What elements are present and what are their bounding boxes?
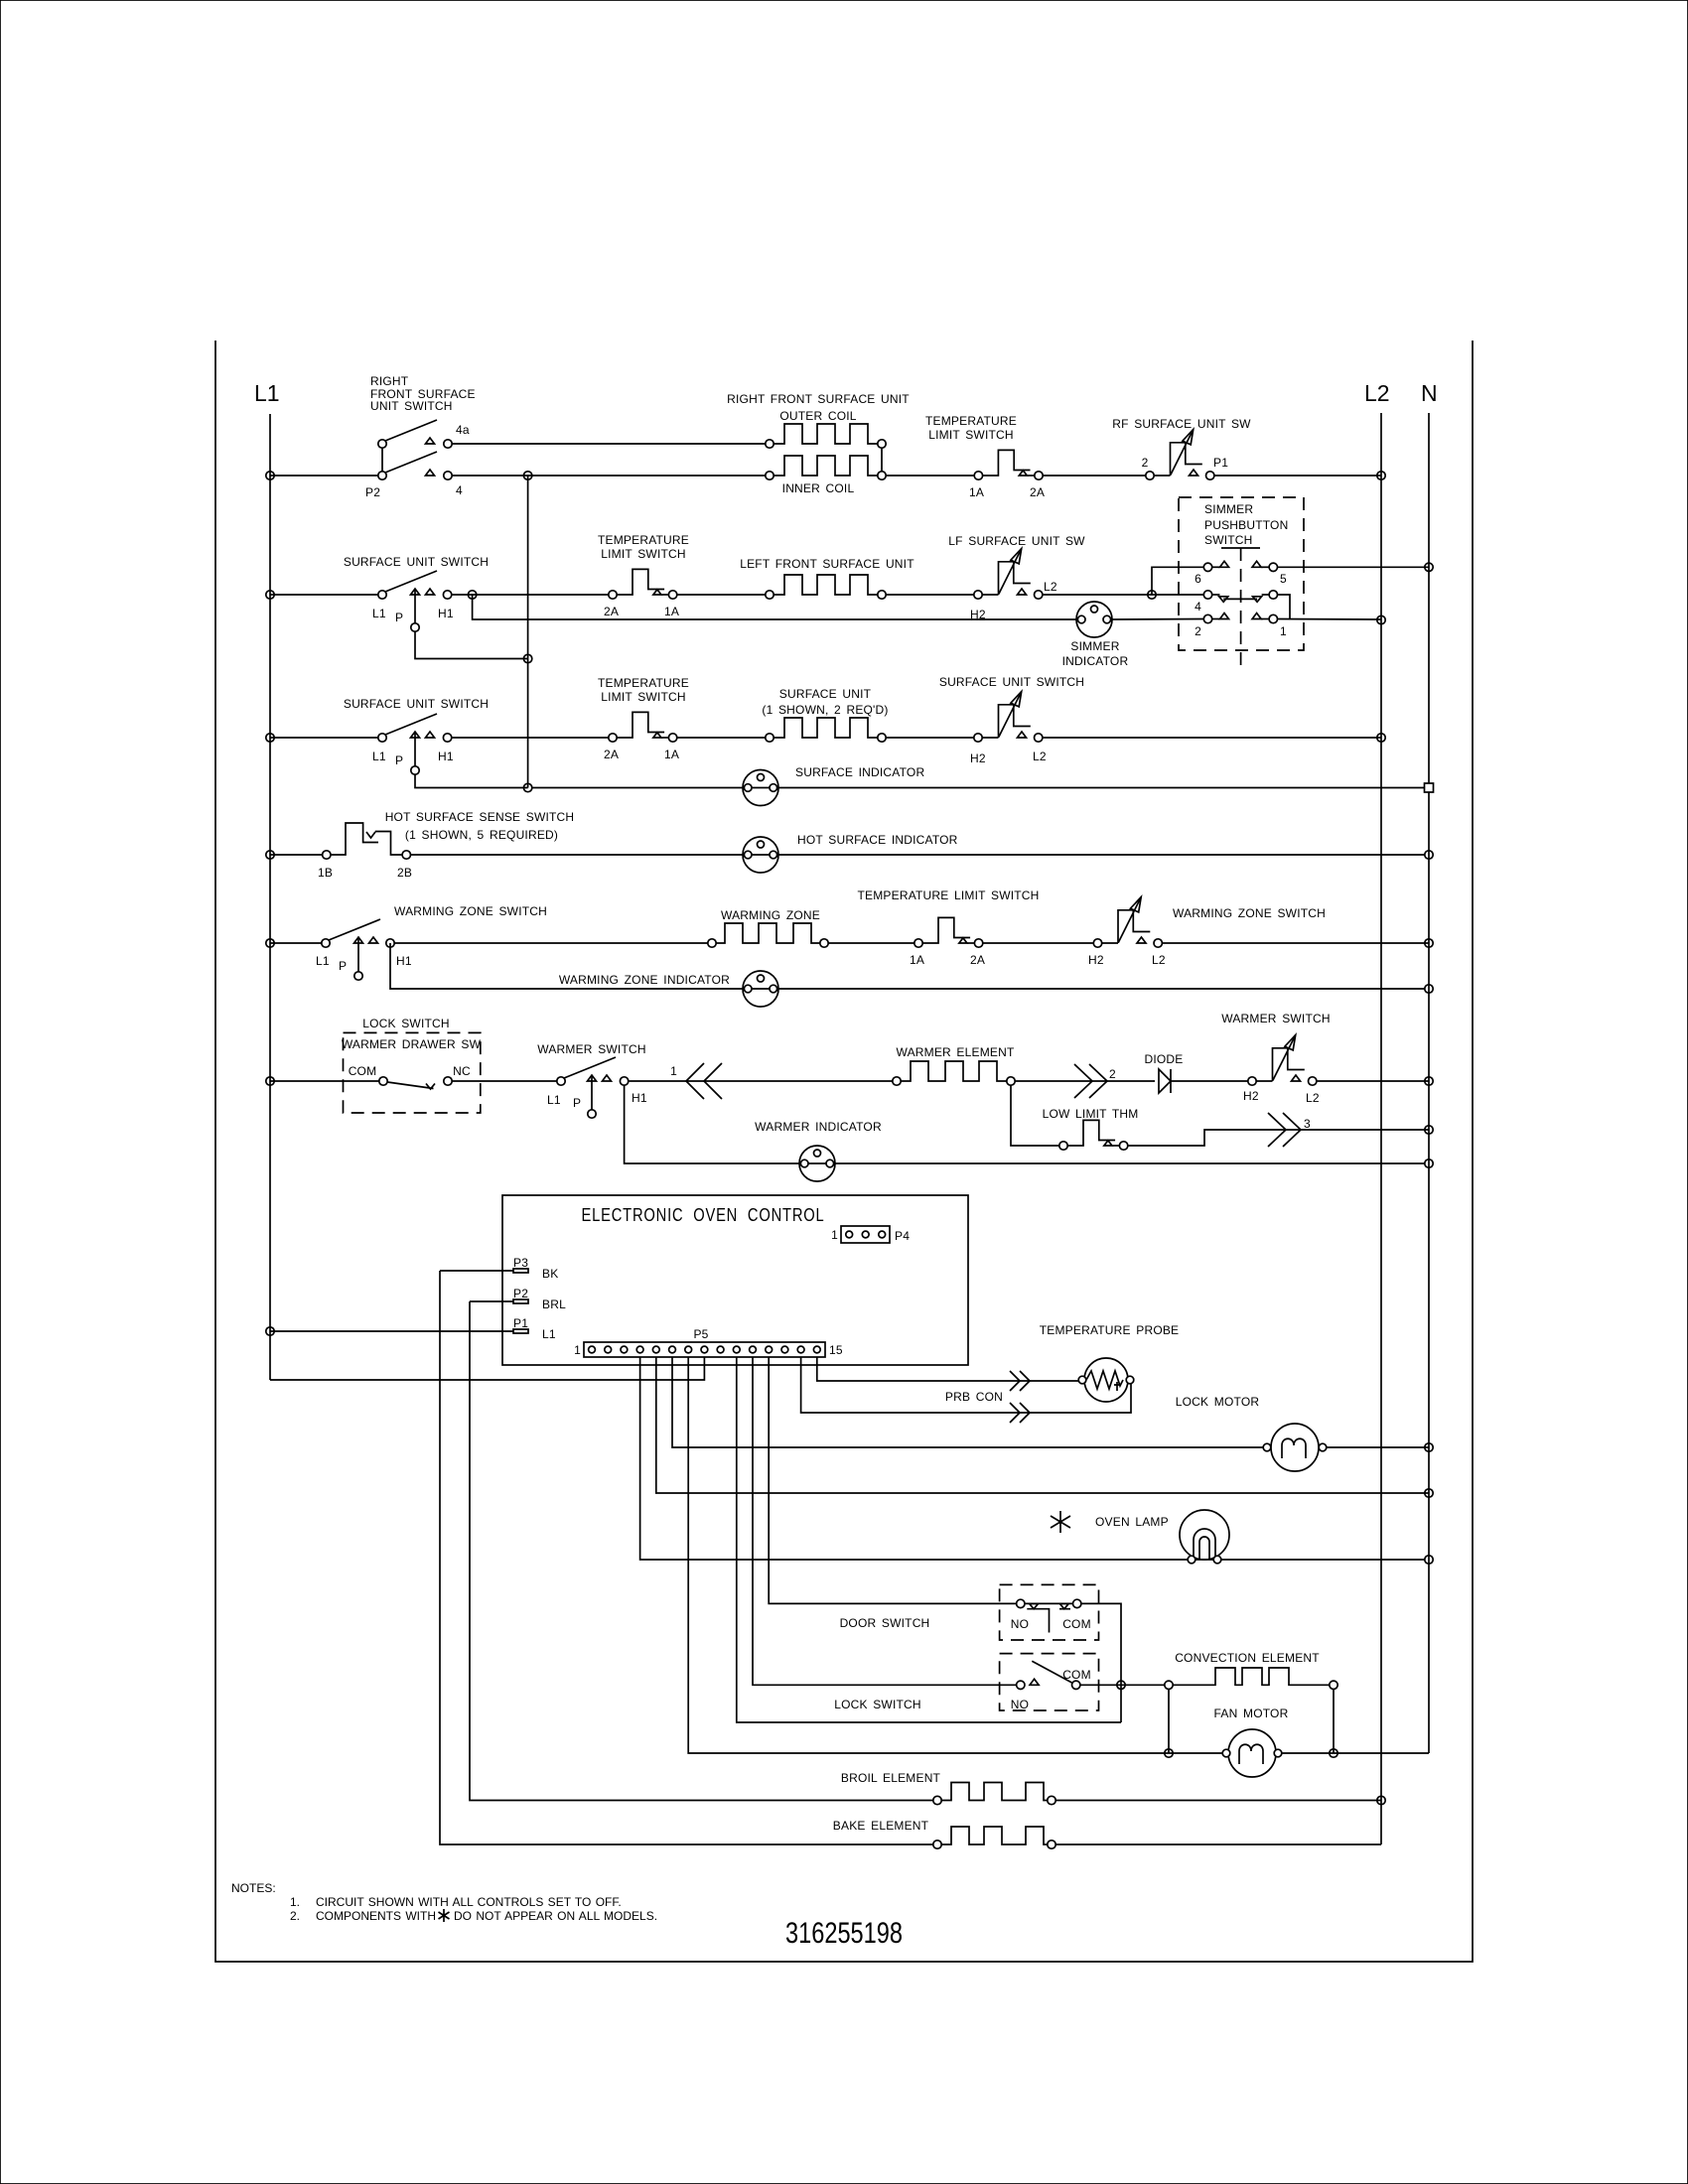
wire feed up to simmer pin6 (1152, 567, 1203, 595)
svg-text:P1: P1 (513, 1316, 528, 1330)
wire 4 to inner coil (452, 475, 766, 477)
switch SW9 warming zone switch (L1/P/H1) (316, 904, 547, 980)
wire bake row (440, 1271, 933, 1844)
switch SW2 RF surface unit sw (2/P1) (1112, 417, 1251, 479)
wire joining coil outputs (881, 448, 883, 472)
junction L2 broil (1377, 1796, 1385, 1804)
svg-text:P4: P4 (895, 1229, 910, 1243)
wire long vertical tap (527, 476, 529, 788)
svg-text:OVEN LAMP: OVEN LAMP (1095, 1515, 1169, 1529)
notes (231, 1881, 657, 1923)
svg-text:L2: L2 (1044, 580, 1057, 594)
svg-text:5: 5 (1280, 572, 1287, 586)
junction L1 row3 (266, 734, 274, 742)
wire P1 to L2 (1214, 475, 1381, 477)
wire broil to L2 (1055, 1800, 1381, 1802)
switch SW14 door switch (NO/COM) (840, 1584, 1099, 1640)
junction fan left (1165, 1749, 1173, 1757)
junction simmer feed (1148, 591, 1156, 599)
junction L1 hot surface (266, 851, 274, 859)
wire 2A to RF switch (1043, 475, 1146, 477)
svg-text:COM: COM (349, 1064, 377, 1078)
electronic oven control U1 (502, 1195, 968, 1365)
svg-text:TEMPERATURE PROBE: TEMPERATURE PROBE (1040, 1323, 1180, 1337)
junction L1 row1 (266, 472, 274, 479)
svg-text:HOT SURFACE SENSE SWITCH: HOT SURFACE SENSE SWITCH (385, 810, 575, 824)
svg-text:WARMER ELEMENT: WARMER ELEMENT (896, 1045, 1014, 1059)
wire warmer L2 to N (1317, 1080, 1429, 1082)
svg-text:H1: H1 (438, 750, 454, 763)
svg-text:H1: H1 (632, 1091, 647, 1105)
wire H1 to 2A with branch junction (452, 594, 609, 596)
svg-text:P2: P2 (365, 485, 380, 499)
junction N warmer indicator (1425, 1160, 1433, 1167)
svg-text:(1 SHOWN, 2 REQ'D): (1 SHOWN, 2 REQ'D) (762, 703, 888, 717)
pin P3 BK (513, 1256, 558, 1281)
svg-text:DOOR SWITCH: DOOR SWITCH (840, 1616, 930, 1630)
switch SW13 warmer switch right (H2/L2) (1221, 1012, 1330, 1105)
junction L1 row2 (266, 591, 274, 599)
junction L1 P1 (266, 1327, 274, 1335)
svg-text:WARMER INDICATOR: WARMER INDICATOR (755, 1120, 882, 1134)
svg-text:BAKE ELEMENT: BAKE ELEMENT (833, 1819, 929, 1833)
connector P4 (831, 1226, 910, 1243)
svg-text:ELECTRONIC OVEN CONTROL: ELECTRONIC OVEN CONTROL (582, 1205, 825, 1225)
svg-text:LOW LIMIT THM: LOW LIMIT THM (1043, 1107, 1139, 1121)
wire low limit to connector 3 (1128, 1130, 1429, 1146)
svg-text:L2: L2 (1364, 380, 1390, 406)
svg-text:NO: NO (1011, 1617, 1029, 1631)
svg-text:P: P (395, 753, 403, 767)
svg-text:LEFT FRONT SURFACE UNIT: LEFT FRONT SURFACE UNIT (740, 557, 914, 571)
wire 4a to outer coil (452, 443, 766, 445)
wire warming zone row (270, 942, 322, 944)
switch TL4 temperature limit switch warming (1A/2A) (857, 888, 1039, 967)
wire convection left leg (1168, 1690, 1170, 1754)
junction L1 warming (266, 939, 274, 947)
junction N lock motor (1425, 1443, 1433, 1451)
svg-text:RF SURFACE UNIT SW: RF SURFACE UNIT SW (1112, 417, 1251, 431)
wire pin5 to N (656, 1357, 1429, 1493)
junction N warmer row (1425, 1077, 1433, 1085)
svg-text:L2: L2 (1152, 953, 1166, 967)
switch SW7 surface unit switch right (H2/L2) (939, 675, 1084, 765)
wire pin12 to door switch (769, 1357, 1016, 1603)
motor M1 lock motor (1176, 1395, 1327, 1471)
svg-text:(1 SHOWN, 5 REQUIRED): (1 SHOWN, 5 REQUIRED) (405, 828, 558, 842)
svg-text:2: 2 (1195, 624, 1201, 638)
svg-text:TEMPERATURE: TEMPERATURE (598, 676, 689, 690)
wire pin11 to lock switch (753, 1357, 1017, 1685)
svg-text:OUTER COIL: OUTER COIL (779, 409, 856, 423)
pin P2 BRL (513, 1287, 566, 1311)
wire lock switch row from L1 (270, 1080, 379, 1082)
wire P1 to L1 rail (270, 1330, 513, 1332)
svg-text:LOCK SWITCH: LOCK SWITCH (834, 1698, 921, 1711)
svg-text:WARMING ZONE SWITCH: WARMING ZONE SWITCH (1173, 906, 1326, 920)
junction L2 row3 (1377, 734, 1385, 742)
svg-text:1: 1 (831, 1228, 838, 1242)
wire row1 L1 to switch P2 (270, 475, 378, 477)
junction vertical bottom (523, 783, 531, 791)
heater R7 convection element (1165, 1651, 1337, 1690)
switch SW12 warmer switch (L1/P/H1) (537, 1042, 647, 1118)
svg-text:WARMING ZONE: WARMING ZONE (721, 908, 820, 922)
svg-text:2: 2 (1142, 456, 1149, 470)
diode D1 (1144, 1052, 1183, 1093)
wire pin6 to lock motor (672, 1357, 1267, 1447)
svg-text:P: P (395, 611, 403, 624)
svg-text:DIODE: DIODE (1144, 1052, 1183, 1066)
switch SW5 simmer pushbutton switch (1179, 497, 1304, 665)
svg-text:1: 1 (1280, 624, 1287, 638)
svg-text:1A: 1A (910, 953, 924, 967)
switch SW1 right front surface unit switch (P2/4/4a) (365, 374, 476, 499)
svg-text:WARMING ZONE SWITCH: WARMING ZONE SWITCH (394, 904, 547, 918)
svg-text:SURFACE UNIT SWITCH: SURFACE UNIT SWITCH (344, 697, 489, 711)
svg-text:CONVECTION ELEMENT: CONVECTION ELEMENT (1175, 1651, 1320, 1665)
svg-text:LIMIT SWITCH: LIMIT SWITCH (928, 428, 1014, 442)
svg-text:BROIL ELEMENT: BROIL ELEMENT (841, 1771, 941, 1785)
svg-text:SURFACE INDICATOR: SURFACE INDICATOR (795, 765, 924, 779)
wire lamp to simmer pin2 (1111, 618, 1204, 621)
svg-text:SURFACE UNIT SWITCH: SURFACE UNIT SWITCH (939, 675, 1084, 689)
wire diode to warmer switch right (1171, 1080, 1248, 1082)
connector P5 (574, 1327, 843, 1357)
switch TL3 temperature limit switch row3 (2A/1A) (598, 676, 689, 761)
lamp DS2 surface indicator (532, 765, 1425, 806)
switch SW3 surface unit switch row2 (L1/P/H1) (344, 555, 489, 631)
svg-text:HOT SURFACE INDICATOR: HOT SURFACE INDICATOR (797, 833, 958, 847)
svg-text:TEMPERATURE: TEMPERATURE (598, 533, 689, 547)
svg-text:PRB CON: PRB CON (945, 1390, 1003, 1404)
wire coil to 1A warming (828, 942, 914, 944)
svg-text:CIRCUIT SHOWN WITH ALL CONTROL: CIRCUIT SHOWN WITH ALL CONTROLS SET TO O… (316, 1895, 622, 1909)
wire pin14 to probe return (801, 1357, 1131, 1413)
svg-text:L2: L2 (1306, 1091, 1320, 1105)
svg-text:TEMPERATURE LIMIT SWITCH: TEMPERATURE LIMIT SWITCH (857, 888, 1039, 902)
wire 1A to coil row3 (677, 737, 766, 739)
wire P2 to broil (470, 1300, 513, 1302)
pin P1 L1 (513, 1316, 556, 1341)
svg-text:TEMPERATURE: TEMPERATURE (925, 414, 1017, 428)
svg-text:WARMER DRAWER SW: WARMER DRAWER SW (342, 1037, 482, 1051)
svg-text:2A: 2A (604, 748, 619, 761)
svg-text:SURFACE UNIT: SURFACE UNIT (779, 687, 872, 701)
junction branch row2 (468, 591, 476, 599)
svg-text:2A: 2A (1030, 485, 1045, 499)
svg-text:1: 1 (574, 1343, 581, 1357)
svg-text:P3: P3 (513, 1256, 528, 1270)
svg-text:2A: 2A (970, 953, 985, 967)
wire 1A to LF coil (677, 594, 766, 596)
svg-text:4a: 4a (456, 423, 470, 437)
svg-text:1A: 1A (969, 485, 984, 499)
svg-text:P: P (339, 959, 347, 973)
svg-text:2A: 2A (604, 605, 619, 618)
wire lock motor to N (1327, 1446, 1429, 1448)
svg-text:WARMING ZONE INDICATOR: WARMING ZONE INDICATOR (559, 973, 730, 987)
svg-text:INNER COIL: INNER COIL (782, 481, 855, 495)
heater R9 bake element (833, 1819, 1055, 1848)
bus L2 (1364, 380, 1390, 1844)
heater R5 warming zone (708, 908, 828, 947)
wire coil to H2 row3 (886, 737, 974, 739)
svg-text:LIMIT SWITCH: LIMIT SWITCH (601, 690, 686, 704)
wire L2 to N warming (1162, 942, 1429, 944)
svg-text:H2: H2 (970, 751, 986, 765)
switch SW15 lock switch (NO/COM) (834, 1654, 1098, 1711)
lamp DS4 warming zone indicator (390, 943, 1425, 1007)
svg-text:COM: COM (1062, 1617, 1091, 1631)
heater R8 broil element (841, 1771, 1055, 1805)
wire P3 to bake (440, 1270, 513, 1272)
wire convection right leg (1333, 1690, 1335, 1754)
wire bake to L2 rail bottom (1055, 1843, 1381, 1845)
svg-text:L1: L1 (254, 380, 280, 406)
svg-text:PUSHBUTTON: PUSHBUTTON (1204, 518, 1288, 532)
svg-text:H1: H1 (396, 954, 412, 968)
svg-text:L2: L2 (1033, 750, 1047, 763)
svg-text:H2: H2 (1088, 953, 1104, 967)
heater R1 right front surface unit outer coil (727, 392, 910, 448)
svg-text:H1: H1 (438, 607, 454, 620)
svg-text:WARMER SWITCH: WARMER SWITCH (537, 1042, 645, 1056)
wire inner coil to 1A (886, 475, 974, 477)
wire L2 contact to simmer pin4 (1043, 594, 1203, 596)
junction L1 lock row (266, 1077, 274, 1085)
svg-text:LOCK SWITCH: LOCK SWITCH (362, 1017, 450, 1030)
wire P3 pilot to surface indicator line (415, 774, 528, 787)
svg-text:4: 4 (1195, 600, 1201, 614)
svg-text:LF SURFACE UNIT SW: LF SURFACE UNIT SW (948, 534, 1085, 548)
junction N connector 3 (1425, 1126, 1433, 1134)
wire H1 to 2A row3 (452, 737, 609, 739)
switch SW10 warming zone switch right (H2/L2) (1088, 897, 1326, 967)
wire L2 contact to L2 rail row3 (1043, 737, 1381, 739)
svg-text:L1: L1 (372, 750, 386, 763)
connector chevrons 2 (1074, 1064, 1116, 1098)
wire row3 L1 to switch (270, 737, 378, 739)
wire H1 to warming coil (394, 942, 708, 944)
svg-text:COM: COM (1062, 1668, 1091, 1682)
junction lock vertical (1117, 1681, 1125, 1689)
wire pin7 fan motor row (688, 1357, 1222, 1753)
wire simmer 5 to N (1278, 566, 1430, 568)
connector chevrons 3 (1268, 1113, 1311, 1147)
junction L2 row1 (1377, 472, 1385, 479)
thermistor RT1 temperature probe (1040, 1323, 1180, 1402)
svg-text:4: 4 (456, 483, 463, 497)
svg-text:RIGHT FRONT SURFACE UNIT: RIGHT FRONT SURFACE UNIT (727, 392, 910, 406)
switch TL5 low limit thm (1043, 1107, 1139, 1150)
lamp DS1 simmer indicator (1062, 602, 1129, 668)
svg-text:6: 6 (1195, 572, 1201, 586)
svg-text:DO NOT APPEAR ON ALL MODELS.: DO NOT APPEAR ON ALL MODELS. (454, 1909, 657, 1923)
wire simmer 1 to L2 (1278, 618, 1382, 621)
connector chevrons 1 (670, 1063, 722, 1099)
wire pin10 to lock vertical (737, 1357, 1121, 1722)
svg-text:SIMMER: SIMMER (1070, 639, 1119, 653)
svg-text:SIMMER: SIMMER (1204, 502, 1253, 516)
switch SW4 LF surface unit sw (H2/L2) (948, 534, 1085, 621)
junction N pin5 (1425, 1489, 1433, 1497)
svg-text:RIGHT: RIGHT (370, 374, 409, 388)
heater R4 surface unit (1 shown 2 reqd) (762, 687, 888, 742)
wire element to diode with connector 2 (1015, 1080, 1155, 1082)
lamp DS3 hot surface indicator (411, 833, 1426, 873)
junction N surface indicator (square) (1425, 783, 1434, 792)
svg-text:316255198: 316255198 (785, 1917, 903, 1950)
svg-text:L1: L1 (316, 954, 330, 968)
svg-text:L1: L1 (542, 1327, 556, 1341)
svg-text:1.: 1. (290, 1895, 300, 1909)
svg-text:3: 3 (1304, 1117, 1311, 1131)
svg-text:H2: H2 (1243, 1089, 1259, 1103)
wire low limit branch (1011, 1085, 1059, 1146)
svg-text:1: 1 (670, 1064, 677, 1078)
lamp DS5 warmer indicator (625, 1085, 1425, 1181)
svg-text:FAN MOTOR: FAN MOTOR (1214, 1706, 1289, 1720)
junction L2 simmer indicator (1377, 615, 1385, 623)
svg-text:NC: NC (453, 1064, 471, 1078)
motor M2 fan motor (1214, 1706, 1289, 1777)
svg-text:LOCK MOTOR: LOCK MOTOR (1176, 1395, 1260, 1409)
junction vertical at row1 (523, 472, 531, 479)
svg-text:SURFACE UNIT SWITCH: SURFACE UNIT SWITCH (344, 555, 489, 569)
svg-text:COMPONENTS WITH: COMPONENTS WITH (316, 1909, 436, 1923)
wire NC to warmer switch (452, 1080, 557, 1082)
svg-text:SWITCH: SWITCH (1204, 533, 1253, 547)
svg-text:LIMIT SWITCH: LIMIT SWITCH (601, 547, 686, 561)
wire H1 to warmer element with connector 1 (629, 1080, 893, 1082)
svg-text:P1: P1 (1213, 456, 1228, 470)
svg-text:2B: 2B (397, 866, 412, 880)
svg-text:N: N (1421, 380, 1438, 406)
svg-text:1A: 1A (664, 748, 679, 761)
switch TL2 temperature limit switch row2 (2A/1A) (598, 533, 689, 618)
junction fan right (1330, 1749, 1337, 1757)
svg-text:UNIT SWITCH: UNIT SWITCH (370, 399, 453, 413)
wire fan motor to N (1282, 1752, 1429, 1754)
svg-text:15: 15 (829, 1343, 843, 1357)
heater R2 inner coil (766, 456, 886, 495)
svg-text:BRL: BRL (542, 1297, 566, 1311)
wire 2A to warming switch right (983, 942, 1094, 944)
svg-text:P2: P2 (513, 1287, 528, 1300)
wire L1 bottom bend to pin8 (270, 1357, 704, 1380)
switch TL1 temperature limit switch row1 (1A/2A) (925, 414, 1045, 499)
svg-text:H2: H2 (970, 608, 986, 621)
connector chevrons PRB upper (1010, 1371, 1030, 1391)
lamp DS6 oven lamp (1051, 1510, 1229, 1564)
svg-text:INDICATOR: INDICATOR (1062, 654, 1129, 668)
switch SW11 lock switch / warmer drawer sw (COM/NC) (342, 1017, 482, 1113)
wire coil to H2 (886, 594, 974, 596)
svg-text:L1: L1 (547, 1093, 561, 1107)
connector chevrons PRB lower (1010, 1403, 1030, 1423)
wire P2 pilot to vertical (415, 631, 528, 658)
svg-text:1B: 1B (318, 866, 333, 880)
svg-text:WARMER SWITCH: WARMER SWITCH (1221, 1012, 1330, 1025)
svg-text:1A: 1A (664, 605, 679, 618)
junction vertical P branch (523, 654, 531, 662)
bus L1 (254, 380, 280, 1380)
switch SW8 hot surface sense switch (1B/2B) (318, 810, 574, 880)
junction N oven lamp (1425, 1556, 1433, 1564)
wire pin15 to probe (817, 1357, 1078, 1381)
svg-text:L1: L1 (372, 607, 386, 620)
svg-text:P: P (573, 1096, 581, 1110)
svg-text:NOTES:: NOTES: (231, 1881, 276, 1895)
svg-text:NO: NO (1011, 1698, 1029, 1711)
svg-text:P5: P5 (693, 1327, 708, 1341)
junction N warming (1425, 939, 1433, 947)
svg-text:2: 2 (1109, 1067, 1116, 1081)
wire branch down to simmer indicator line (473, 595, 1077, 619)
wire lock COM to convection (1080, 1684, 1165, 1686)
junction N warming indicator (1425, 985, 1433, 993)
wire broil row (470, 1301, 933, 1801)
wire pin4 oven lamp row (640, 1357, 1425, 1560)
svg-text:2.: 2. (290, 1909, 300, 1923)
wire door COM to vertical (1081, 1603, 1121, 1722)
wire row2 L1 to switch (270, 594, 378, 596)
switch SW6 surface unit switch row3 (L1/P/H1) (344, 697, 489, 774)
heater R3 left front surface unit (740, 557, 914, 599)
bus N (1421, 380, 1438, 1753)
wire hot surface row (270, 854, 323, 856)
svg-text:BK: BK (542, 1267, 558, 1281)
heater R6 warmer element (893, 1045, 1015, 1085)
junction N simmer (1425, 563, 1433, 571)
junction N hot surface (1425, 851, 1433, 859)
